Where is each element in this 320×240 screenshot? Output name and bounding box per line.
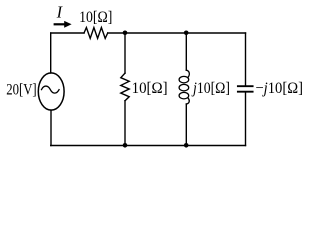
wire branch L lower: [185, 104, 187, 146]
label j10[ohm] inductor: [191, 80, 230, 97]
wire top middle segment: [108, 32, 246, 34]
wire bottom: [51, 145, 246, 147]
inductor L1 loop 3: [179, 92, 189, 99]
capacitor C1 bottom plate: [238, 91, 253, 93]
wire branch R2 lower: [124, 101, 126, 146]
ac source V1 ellipse: [38, 73, 64, 110]
resistor R2 10ohm (vertical zigzag): [121, 73, 129, 101]
junction node bottom-right (186,145): [184, 143, 189, 148]
svg-text:10[Ω]: 10[Ω]: [197, 80, 230, 97]
wire left lower: [50, 110, 52, 145]
junction node top-left (125,33): [123, 31, 128, 36]
svg-text:10[Ω]: 10[Ω]: [79, 9, 112, 26]
wire branch L upper: [185, 33, 187, 70]
capacitor C1 top plate: [238, 85, 253, 87]
svg-text:−: −: [255, 79, 263, 97]
inductor L1 loop 1: [179, 76, 189, 83]
wire right branch upper: [245, 33, 247, 85]
inductor L1 coil entry hook: [186, 70, 189, 77]
label -j10[ohm] capacitor: [255, 79, 303, 97]
wire left upper: [50, 33, 52, 73]
current arrow for I: [54, 23, 66, 25]
resistor R1 10ohm (series, horizontal zigzag): [84, 28, 108, 39]
inductor L1 coil exit hook: [186, 98, 189, 104]
svg-text:20[V]: 20[V]: [6, 81, 37, 98]
ac source V1 sine wave: [42, 86, 60, 93]
wire branch R2 upper: [124, 33, 126, 73]
junction node top-right (186,33): [184, 31, 189, 36]
wire top-left segment: [51, 32, 84, 34]
svg-text:I: I: [56, 3, 64, 22]
svg-text:10[Ω]: 10[Ω]: [268, 79, 303, 97]
inductor L1 loop 2: [179, 84, 189, 91]
junction node bottom-left (125,145): [123, 143, 128, 148]
wire right branch lower: [245, 93, 247, 146]
svg-text:10[Ω]: 10[Ω]: [132, 80, 168, 97]
